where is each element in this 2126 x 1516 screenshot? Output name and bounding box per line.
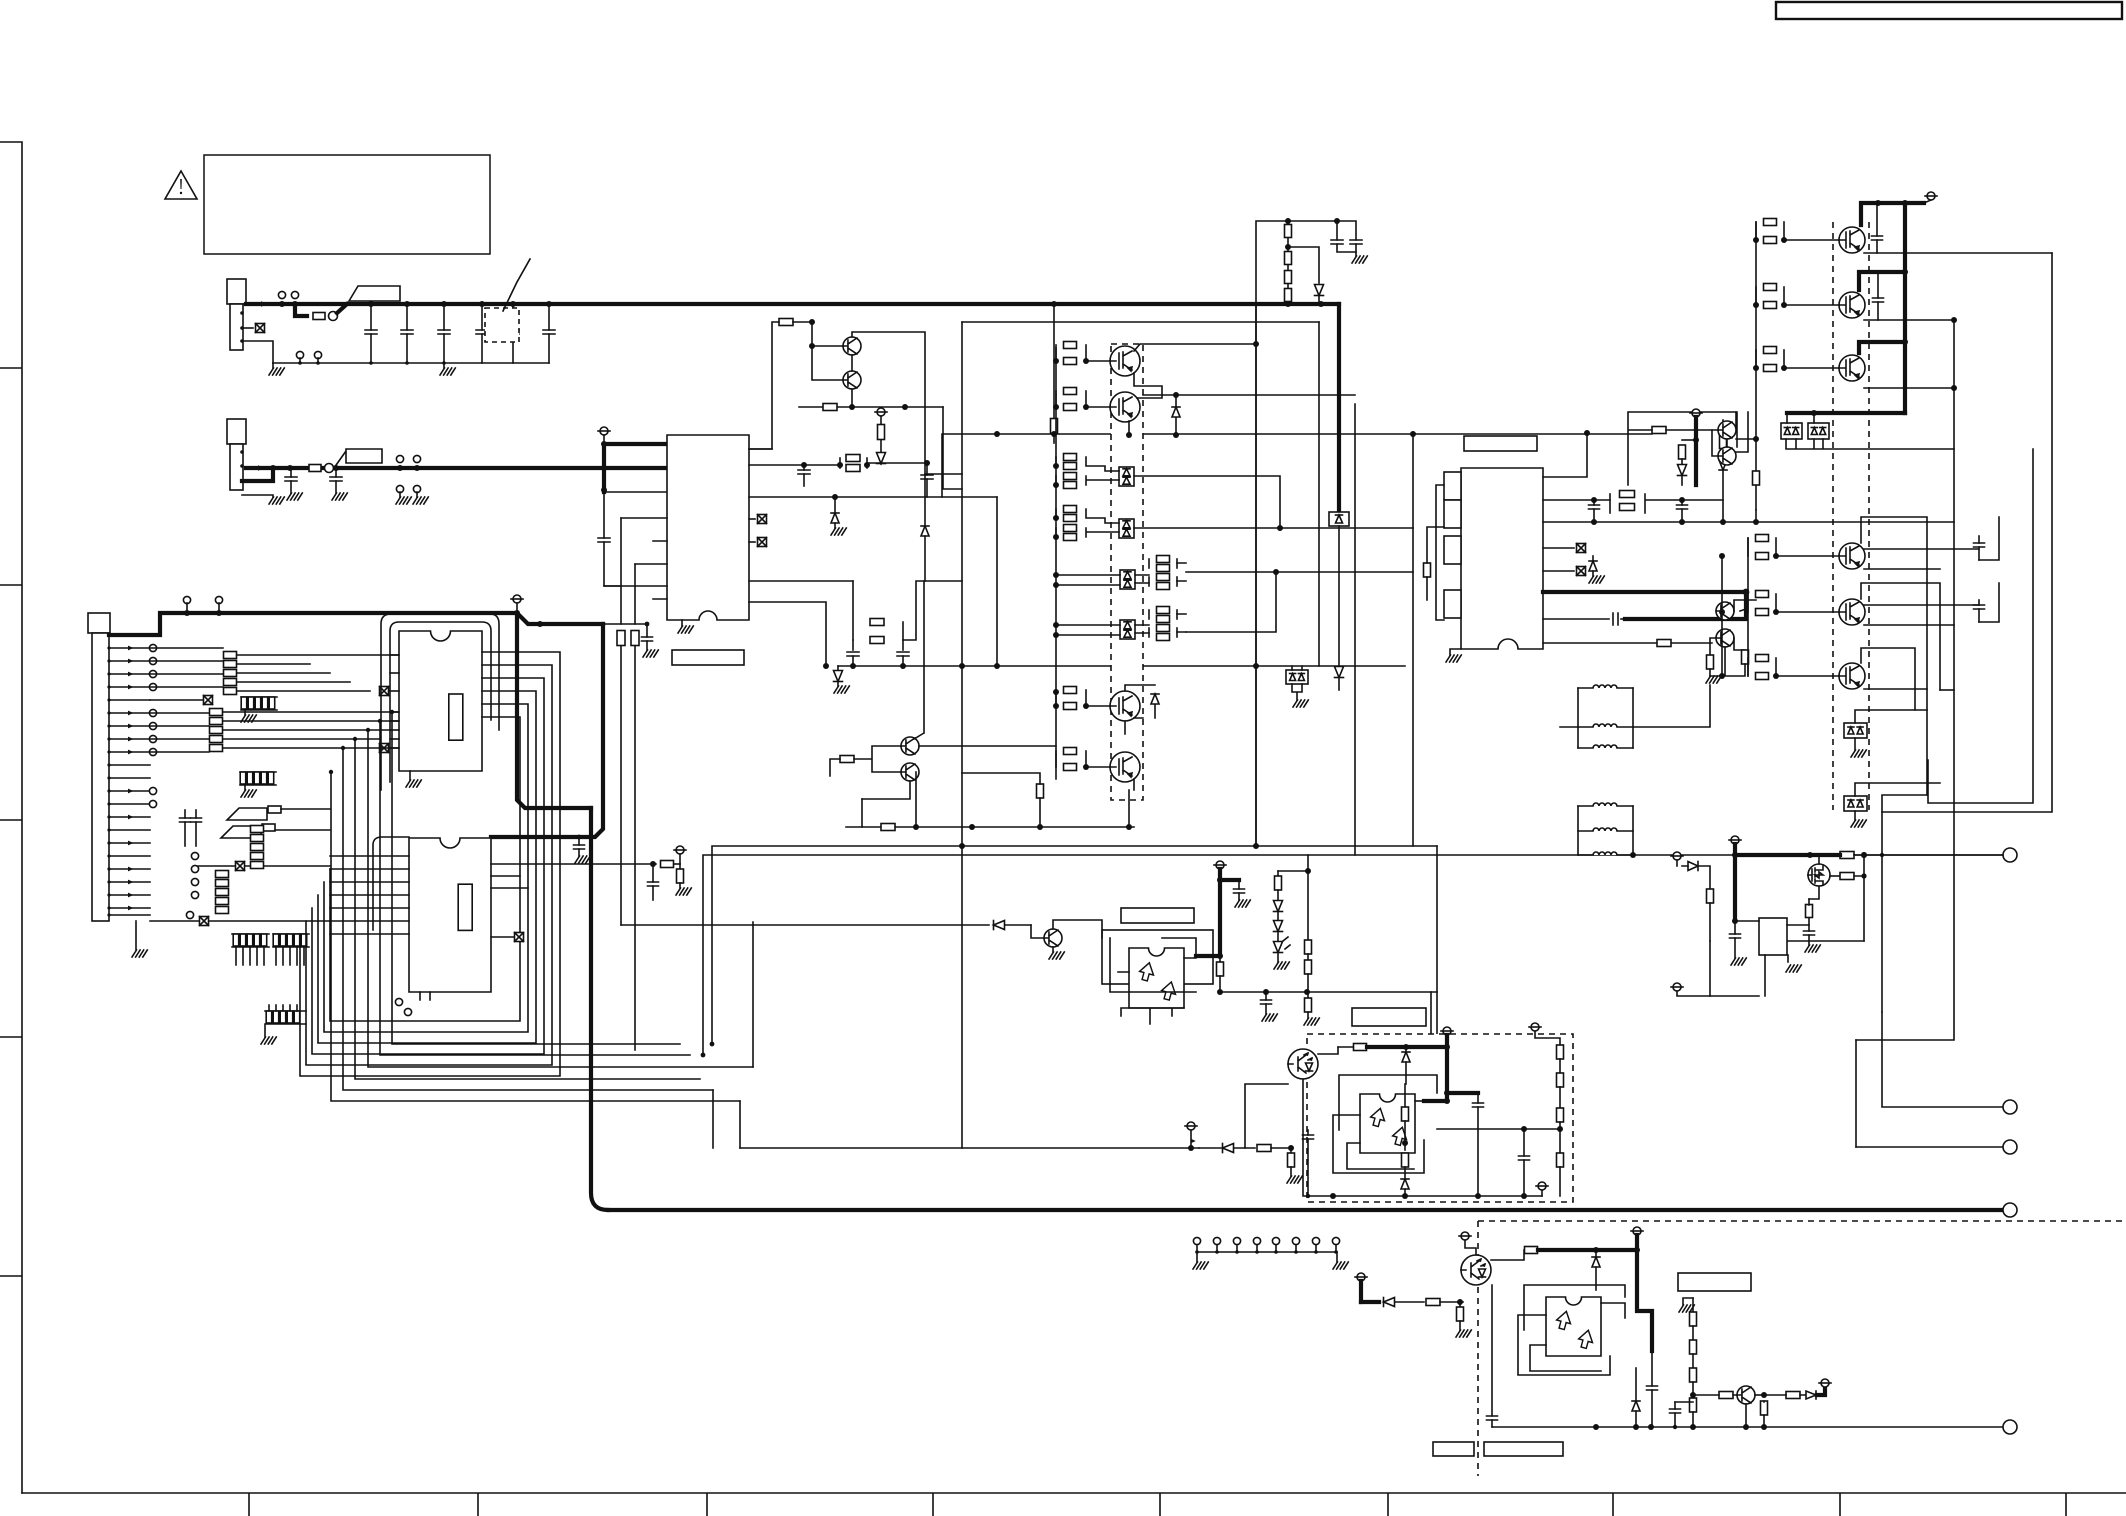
xbox X4 <box>515 933 524 942</box>
cap C21 <box>652 864 654 882</box>
wire vertical x962 <box>961 322 963 1148</box>
M2 out <box>1134 527 1413 529</box>
flag P12 <box>1538 1182 1546 1190</box>
fuse loop on bus1 <box>295 304 307 316</box>
power flag P2 <box>600 427 608 435</box>
driver pair Q45 <box>901 737 919 755</box>
connector CN1 <box>227 279 246 304</box>
resistor stack RS2 <box>210 709 223 716</box>
xbox X1 <box>204 696 213 705</box>
resistor chain RA <box>1285 225 1292 238</box>
Q32 emitter wire <box>851 355 853 371</box>
wire to OUT3 <box>1856 1146 2003 1148</box>
OC1 wire loops <box>1110 938 1196 992</box>
IGBT Q73 <box>1839 355 1865 381</box>
CN2 pin3 gnd <box>242 495 273 497</box>
CN2 pin2 thick to bus <box>242 468 273 481</box>
IC2 right pin A <box>712 846 1437 1044</box>
res R62 <box>1682 439 1696 441</box>
dashed box middle column <box>1111 344 1143 800</box>
res R21v <box>679 864 681 868</box>
caps pair CL <box>184 810 186 818</box>
cap C95 <box>1674 1402 1676 1409</box>
test point circles col1 <box>149 644 156 651</box>
wire y322 under bus1 <box>962 321 1319 323</box>
comb array RC2 <box>240 771 276 773</box>
diode D91 <box>1405 1047 1407 1051</box>
power flag P8 <box>1731 836 1739 844</box>
OC2 y1129 wire <box>1437 1128 1560 1130</box>
res R drive <box>1753 471 1760 485</box>
wire ring around IC2 <box>373 837 409 930</box>
flag P11 <box>1443 1027 1451 1035</box>
rail to y522 <box>1755 510 1757 522</box>
driver pair QD2 (lower bank) <box>1716 602 1734 620</box>
CN3 bottom ground <box>135 921 137 950</box>
res pair R42 <box>1055 391 1057 407</box>
wire x1882 lower <box>1881 855 1883 1012</box>
cap C32 <box>924 460 930 466</box>
res loops M4 <box>1148 610 1150 619</box>
wire y1148 feed <box>740 1147 1199 1149</box>
wire bus1 drop at x=1339 <box>1337 304 1341 510</box>
OC3 left col <box>1491 1285 1493 1416</box>
wire ring around IC1 <box>390 622 491 782</box>
IGBT Q75 <box>1839 599 1865 625</box>
xbox X2 <box>236 862 245 871</box>
cap C93 <box>1307 1130 1309 1135</box>
OC1 input Q <box>1044 929 1062 947</box>
OC3 wire loops <box>1524 1285 1625 1330</box>
Q9 base res <box>1719 1392 1733 1399</box>
output circle OUT1 <box>2003 848 2017 862</box>
res chain right of OC1 <box>1278 870 1308 872</box>
res pair R41 <box>1055 345 1057 361</box>
cap C52 <box>1265 992 1267 1000</box>
Q41-Q42 link <box>1134 373 1162 398</box>
thick stub Q72 <box>1859 272 1905 290</box>
wire x1413 <box>1412 434 1414 846</box>
label box OC3 <box>1678 1273 1751 1291</box>
thick drop x517 to y808 <box>517 613 591 808</box>
branch to diode D <box>1288 247 1319 283</box>
diode module M1 <box>1119 467 1134 486</box>
IC3 label box <box>672 650 744 665</box>
res R82 <box>1830 875 1840 877</box>
flag P5 <box>1216 861 1224 869</box>
IC1 ground <box>409 771 411 780</box>
thick x603 drop to IC2 <box>491 624 603 837</box>
res pair R43 <box>1055 690 1057 706</box>
diode D62 <box>1678 465 1687 476</box>
OC2T stem <box>1303 1079 1308 1196</box>
diode D34 <box>837 666 839 670</box>
cap C35 <box>604 624 647 637</box>
transformer T2 <box>1593 803 1617 806</box>
M4 out <box>1186 572 1276 632</box>
label flag FB1 <box>349 286 400 301</box>
Q9 emitter <box>1745 1404 1747 1427</box>
comb array RC4 <box>273 933 309 935</box>
dashed box around C-row <box>485 308 519 342</box>
junction dots bus1 <box>279 301 285 307</box>
IGBT Q44 <box>1110 752 1140 782</box>
res pair R44 <box>1055 751 1057 767</box>
wire x1256 <box>1255 304 1257 846</box>
OC2 input wire <box>1318 1047 1338 1054</box>
transformer T1 <box>1593 685 1617 688</box>
cap C82 <box>1808 925 1810 931</box>
diode D33 mid <box>832 494 838 500</box>
wire top loop <box>1256 221 1356 304</box>
CN1 pin2 to noise filter <box>242 327 253 329</box>
OC1 Q collector <box>1053 920 1102 938</box>
res pairs M2 <box>1055 509 1057 518</box>
IC3 ground <box>681 620 683 626</box>
dual diode modules DD3 DD4 <box>1844 723 1867 738</box>
MOSFET Q8 <box>1808 864 1830 886</box>
diode D96 <box>1595 1250 1597 1256</box>
test point circles col2 <box>191 852 198 859</box>
IC4 ground <box>1450 649 1461 655</box>
flag P9 <box>1673 852 1681 860</box>
thick bottom bus C to output <box>608 1208 2003 1212</box>
res R83 <box>1707 889 1714 903</box>
thick feed to IC3 <box>604 444 667 492</box>
lower bank collector loops <box>1861 517 1940 795</box>
wire x2054 <box>1882 253 2052 853</box>
lower bank wires <box>1864 549 1979 689</box>
OC2 v-col x1405 <box>1404 1084 1406 1107</box>
transistor Q32 <box>843 371 861 389</box>
wire x1856 <box>1855 1040 1857 1147</box>
label box OC2 <box>1352 1008 1426 1026</box>
junction dots bus2 <box>270 465 276 471</box>
res loop RP4 <box>1609 494 1611 513</box>
ground rail under bus1 <box>273 362 549 364</box>
M3 out <box>1186 571 1413 573</box>
IC4 thick out <box>1543 592 1746 619</box>
CN3 pin arrows <box>128 646 133 651</box>
IGBT bank upper Q71 <box>1839 227 1865 253</box>
wire y497 right <box>996 497 998 666</box>
wire to OC2T <box>1291 1147 1292 1149</box>
flag P17 <box>1821 1379 1829 1387</box>
IC2 left pins <box>330 855 409 857</box>
test points on bus1 <box>278 291 285 298</box>
comb array RC1 <box>241 696 277 698</box>
IC3 left pin resistors R-pair <box>621 518 635 624</box>
optocoupler OC2T <box>1288 1049 1318 1079</box>
xbox X6 <box>380 744 389 753</box>
resistor stack RS1 <box>224 652 237 659</box>
wire y434 long to right driver <box>942 434 1652 497</box>
upper driver pair QD1 <box>1718 421 1736 439</box>
diode D81 <box>1688 862 1698 871</box>
thick vert <box>1733 855 1737 921</box>
diode module M4 <box>1120 620 1135 639</box>
res R97 <box>1459 1302 1461 1307</box>
CN1 pin3 down to ground rail <box>242 341 273 363</box>
wire x1054 from bus1 <box>1053 304 1055 418</box>
output circle OUT4 <box>2003 1203 2017 1217</box>
res R84 <box>1807 874 1809 876</box>
IC4 pin row y522 <box>1543 521 1954 523</box>
wire x1355 <box>1354 404 1356 855</box>
IC2 right pins lower <box>491 876 528 888</box>
warning note box <box>204 155 490 254</box>
arrow on bus1 <box>261 301 267 307</box>
left pin drop verticals to staircase <box>392 712 680 1044</box>
wire y666 long <box>838 665 1405 667</box>
OC1 ground <box>1052 947 1054 952</box>
IC3 left pin wires <box>604 518 667 599</box>
IC2 right pin RC net <box>491 863 656 865</box>
IGBT Q41 <box>1110 346 1140 376</box>
IC4 left pin wires <box>1436 485 1444 620</box>
warning triangle <box>165 171 197 199</box>
ground G3 <box>1355 252 1357 256</box>
cap C81 <box>1734 921 1736 934</box>
left line into OC2 <box>1245 1084 1288 1148</box>
IC2 right pin B to output <box>703 855 2003 1055</box>
res pairs lower bank <box>1747 538 1749 556</box>
OC3 bottom rail to output <box>1492 1426 2003 1428</box>
connector CN2 <box>227 419 246 444</box>
wire D-line y992 <box>1220 991 1437 993</box>
wire x1308 column <box>1307 855 1309 940</box>
IGBT Q76 <box>1839 663 1865 689</box>
diode D on drop <box>1335 667 1344 678</box>
transistor Q31 <box>843 337 861 355</box>
upper bank emitter wires <box>1864 253 2052 388</box>
reg IC5 <box>1759 918 1787 955</box>
wire x1954 <box>1856 320 1954 1040</box>
wire D drop x1431 <box>1430 992 1432 1034</box>
M4 left pins <box>1056 625 1120 635</box>
res chain x1693 <box>1692 1298 1694 1312</box>
OC1 label box <box>1121 908 1194 923</box>
IC1 right pins bundle <box>300 652 560 1076</box>
thick drop x591 to bottom bus <box>591 808 608 1210</box>
caps C pair <box>1331 240 1343 244</box>
res RL4 <box>1424 563 1431 577</box>
label boxes bottom <box>1433 1442 1474 1456</box>
res R45 <box>1037 784 1044 798</box>
IGBT Q72 <box>1839 292 1865 318</box>
Q42 collector out <box>1143 394 1355 396</box>
caps under bus2 <box>290 468 292 477</box>
label flag FB2 <box>334 451 346 468</box>
wire to OUT2 <box>1882 1012 2003 1107</box>
comb array RC3 <box>232 933 269 935</box>
terminal strip TP row <box>1193 1237 1200 1244</box>
thick top feed <box>1861 203 1924 225</box>
optocoupler OC1 ic <box>1129 948 1184 1008</box>
ground G1 <box>272 363 274 368</box>
output circle OUT5 <box>2003 1420 2017 1434</box>
wire y407 <box>799 406 943 408</box>
microcontroller IC1 <box>399 631 482 771</box>
diode D95 <box>1361 1300 1379 1304</box>
OC2 bottom rail <box>1308 1195 1542 1197</box>
IC4 label box <box>1464 436 1537 451</box>
caps right of Q71/Q72 <box>1876 203 1878 236</box>
caps lower bank <box>1978 536 1980 543</box>
thick drop OC3 <box>1637 1250 1652 1351</box>
diode D43 <box>1125 685 1155 691</box>
thick bus from CN3 <box>109 613 517 635</box>
IGBT Q43 <box>1110 691 1140 721</box>
Q31 collector wire <box>852 332 925 525</box>
OC2 wire loops <box>1339 1075 1437 1130</box>
thick vertical x1905 <box>1903 203 1907 413</box>
Q42 emitter <box>1128 421 1130 435</box>
diode D51 <box>621 924 989 926</box>
OC3 bottom components <box>1635 1368 1637 1400</box>
wire bus2 main <box>246 466 604 470</box>
dashed box DB2 <box>1307 1034 1573 1202</box>
wire bus1 main <box>246 302 1339 306</box>
res R52 <box>1219 956 1221 962</box>
res pairs M1 <box>1055 457 1057 466</box>
res chain x1560 <box>1531 1023 1539 1031</box>
IC4 pin 643 <box>1543 642 1656 644</box>
res pair R34 <box>853 581 903 640</box>
optocoupler OC3T <box>1461 1255 1491 1285</box>
diode D94 <box>1223 1144 1234 1153</box>
wire vertical x1319 <box>1318 322 1320 666</box>
IC1 left pins <box>390 654 399 656</box>
res loops M3 <box>1148 559 1150 568</box>
connector CN3 <box>88 613 110 633</box>
flag P4 <box>676 846 684 854</box>
res R95 <box>1290 1148 1292 1153</box>
M3 left pins <box>1056 575 1120 585</box>
cap C92 <box>1523 1129 1525 1156</box>
xbox X3 <box>200 917 209 926</box>
flag P16 <box>1633 1227 1641 1235</box>
res R32 + diode D31 column <box>877 408 885 416</box>
xbox X5 <box>380 687 389 696</box>
parallelogram labels <box>227 808 267 820</box>
right bank bottom wire <box>1882 795 1927 812</box>
CN3 pin wires <box>109 647 150 649</box>
rail lower x1756b <box>1721 556 1723 676</box>
cap row under bus1 <box>370 304 372 330</box>
cap on feed <box>603 492 605 538</box>
microcontroller IC2 <box>409 838 491 992</box>
cap C36 <box>578 837 580 845</box>
thick node OC2 <box>1367 1045 1447 1049</box>
flag P15 <box>1461 1232 1469 1240</box>
thick node <box>1735 853 1810 857</box>
test points bus2 <box>396 455 403 462</box>
wire x2033 <box>1928 449 2033 803</box>
thick step to x603 <box>517 613 603 624</box>
title block <box>1776 2 2122 19</box>
IC3 xbox pins <box>749 518 755 520</box>
resistor stack RS4 <box>216 871 229 878</box>
opto ic OC3 <box>1546 1297 1601 1356</box>
OC1 out thick <box>1196 954 1220 958</box>
test points CN3 bus <box>183 596 190 603</box>
IC3 right pin wires <box>749 449 997 497</box>
arrow on bus2 <box>258 465 264 471</box>
op-amp IC3 <box>667 435 749 620</box>
switch slash <box>503 259 530 311</box>
QD1 wires <box>1652 427 1666 434</box>
comb array RC5 lower <box>265 1010 306 1012</box>
border frame bottom <box>22 1493 2126 1516</box>
resistor stack RS3 <box>251 826 264 833</box>
IGBT Q74 <box>1839 543 1865 569</box>
diode chain x1723 <box>1722 420 1724 430</box>
IC4 left pin boxes <box>1444 472 1461 500</box>
opto ic OC2 <box>1360 1094 1415 1153</box>
IC4 pin1 up <box>1543 433 1587 477</box>
junction dots A-B lines <box>959 843 965 849</box>
IC3 bottom staircase right <box>749 581 853 666</box>
wire y474 join <box>925 473 962 475</box>
wire y581 to x962 <box>903 581 962 640</box>
diode module DDm <box>1286 670 1308 684</box>
rail x1056 <box>1055 348 1057 779</box>
regulator IC4 <box>1461 468 1543 649</box>
flag P10 <box>1673 983 1681 991</box>
diode box on drop <box>1329 512 1349 526</box>
cap C31 <box>803 465 805 470</box>
dashed box right bank <box>1833 222 1869 810</box>
power flag P3 <box>513 595 521 603</box>
comb wires down <box>236 947 264 965</box>
Q43/Q44 emitters <box>1134 718 1143 790</box>
IC2 bottom wires <box>420 992 430 1000</box>
res R81 <box>1840 852 1854 859</box>
diode module M3 <box>1120 570 1135 589</box>
drive rail x1756 <box>1755 222 1757 510</box>
res R94 <box>1257 1145 1271 1152</box>
res R96 <box>1426 1299 1440 1306</box>
thick elbow cap <box>1220 878 1239 882</box>
res pairs upper bank <box>1755 222 1757 240</box>
IGBT Q42 <box>1110 392 1140 422</box>
Q45 out <box>919 745 1056 747</box>
IC4 xbox pins <box>1543 547 1574 549</box>
flag P14 <box>1357 1273 1365 1281</box>
QD1 emitters <box>1712 430 1727 456</box>
thick to diode modules <box>1787 411 1905 415</box>
Q45 collector riser <box>914 581 924 739</box>
ground G2 <box>443 363 445 368</box>
Q31/Q32 base network <box>779 319 793 326</box>
M1 out <box>1134 476 1280 528</box>
optocoupler OC1 outer <box>1102 930 1213 984</box>
wire y827 <box>846 826 1134 828</box>
thick elbow cap <box>1447 1091 1478 1095</box>
wire A drop x1437 <box>1436 846 1438 1042</box>
border frame left <box>0 142 22 1493</box>
thick stub Q73 <box>1859 342 1905 353</box>
transistor Q9 <box>1737 1386 1755 1404</box>
dashed box DB3 <box>1478 1221 2126 1476</box>
flag P13 <box>1187 1122 1195 1130</box>
Q41 collector out <box>1134 344 1256 351</box>
diode D42 <box>1175 395 1177 406</box>
fuse F2 on bus2 <box>309 465 321 472</box>
OC3 input res <box>1491 1250 1524 1260</box>
res pair R31 <box>839 458 841 468</box>
